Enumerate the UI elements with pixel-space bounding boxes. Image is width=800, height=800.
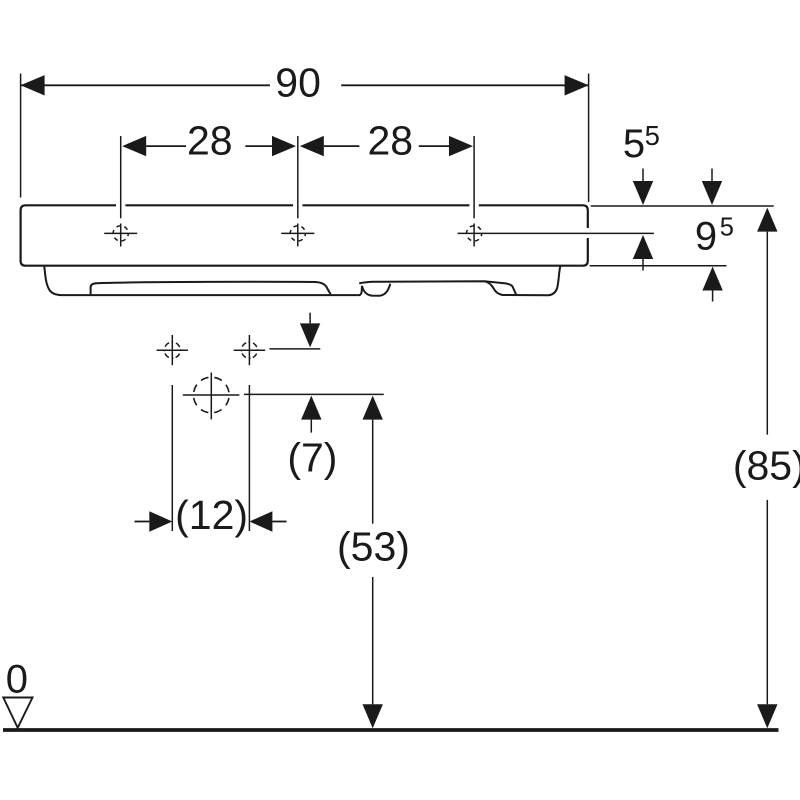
- dimension 90 right arrowhead: [565, 75, 589, 95]
- svg-text:28: 28: [367, 118, 413, 164]
- dimension 90 left arrowhead: [21, 75, 45, 95]
- drain dashed circle: [194, 377, 230, 413]
- dimension (53) lower stem: [372, 577, 374, 704]
- svg-text:90: 90: [275, 60, 321, 106]
- dimension 28 right tail line: [419, 145, 449, 147]
- drain circle vertical centerline: [210, 373, 212, 420]
- washbasin skirt outer left and bottom line: [44, 267, 362, 296]
- drain circle horizontal centerline: [183, 394, 240, 396]
- lower crosshair 1 dashed circle: [164, 342, 180, 358]
- dimension 90 line right segment: [341, 84, 588, 86]
- lower crosshair 1 horizontal line: [157, 349, 188, 351]
- lower crosshair 2 horizontal line: [234, 349, 265, 351]
- dimension (12) left tail line: [135, 521, 150, 523]
- dimension 5.5 up arrowhead: [633, 235, 653, 259]
- lower crosshair 2 vertical line: [248, 335, 250, 365]
- dimension (12) left extension line: [171, 385, 173, 531]
- washbasin skirt right pocket and outer right: [485, 266, 561, 295]
- level line top surface: [591, 205, 774, 207]
- tap hole crosshair 2 vertical line: [297, 224, 299, 247]
- dimension (85) lower stem: [766, 500, 768, 704]
- dimension 90 left extension line: [20, 74, 22, 198]
- svg-text:9: 9: [695, 215, 717, 259]
- dimension (53) down arrowhead: [363, 704, 383, 728]
- dimension (12) left arrowhead: [149, 511, 172, 531]
- datum line for (7) and (53): [244, 393, 384, 395]
- svg-text:5: 5: [720, 214, 734, 242]
- dimension 9.5 up arrowhead: [702, 267, 722, 291]
- tap hole crosshair 2 horizontal line: [281, 232, 314, 234]
- ground line: [3, 728, 779, 732]
- svg-text:0: 0: [6, 658, 28, 702]
- tap hole crosshair 2 dashed circle: [290, 226, 305, 241]
- dimension (85) down arrowhead: [757, 704, 777, 728]
- dimension 5.5 right down arrowhead: [702, 181, 722, 205]
- svg-text:(7): (7): [287, 434, 337, 480]
- svg-text:28: 28: [187, 118, 233, 164]
- svg-text:5: 5: [623, 122, 645, 166]
- drain marker down arrow stem: [309, 313, 311, 324]
- tap hole 3 extension line: [473, 136, 475, 218]
- svg-text:(85): (85): [733, 443, 800, 489]
- dimension 28 right arrowhead: [449, 136, 473, 156]
- dimension 28 left arrowhead: [122, 136, 146, 156]
- dimension 28 middle right-pointing arrowhead: [272, 136, 296, 156]
- dimension (85) top arrowhead: [757, 208, 777, 232]
- dimension (53) up arrowhead: [363, 396, 383, 420]
- dimension 5.5 left down arrow stem: [642, 169, 644, 182]
- dimension 90 line left segment: [21, 84, 270, 86]
- washbasin skirt left recess line: [91, 282, 331, 294]
- dimension 9.5 up arrow stem: [712, 291, 714, 302]
- svg-text:5: 5: [645, 120, 660, 151]
- dimension 28 left line to middle: [245, 145, 272, 147]
- lower crosshair 2 dashed circle: [241, 342, 257, 358]
- tap hole crosshair 1 horizontal line: [104, 232, 137, 234]
- dimension 28 right line from middle: [324, 145, 360, 147]
- dimension 5.5 left down arrowhead: [633, 181, 653, 205]
- tap hole crosshair 3 horizontal line: [458, 232, 491, 234]
- tap hole 2 extension line: [297, 136, 299, 218]
- dimension (12) right extension line: [248, 385, 250, 531]
- washbasin slab outline: [21, 205, 588, 265]
- dimension (12) right tail line: [272, 521, 286, 523]
- dimension (12) right arrowhead: [249, 511, 272, 531]
- washbasin skirt center leaf lower edge: [362, 284, 390, 296]
- svg-text:(53): (53): [337, 523, 410, 569]
- dimension 28 left tail line: [146, 145, 186, 147]
- tap hole crosshair 3 dashed circle: [467, 226, 482, 241]
- dimension 28 middle left-pointing arrowhead: [300, 136, 324, 156]
- datum triangle: [3, 698, 32, 728]
- dimension 5.5 up arrow stem: [642, 259, 644, 271]
- dimension (53) upper stem: [372, 420, 374, 524]
- tap hole crosshair 1 dashed circle: [113, 226, 128, 241]
- level line tap hole axis: [491, 232, 654, 234]
- dimension 5.5 right down arrow stem: [711, 169, 713, 182]
- tap hole crosshair 1 vertical line: [120, 224, 122, 247]
- lower crosshair 1 vertical line: [171, 335, 173, 365]
- svg-text:(12): (12): [175, 492, 248, 538]
- dimension 90 right extension line: [588, 74, 590, 203]
- tap hole crosshair 3 vertical line: [473, 224, 475, 247]
- dimension (7) stem: [310, 420, 312, 433]
- washbasin skirt bridge shelf line with right flap: [359, 281, 516, 294]
- dimension (85) upper stem: [766, 232, 768, 435]
- dimension (7) up arrowhead: [301, 396, 321, 420]
- tap hole 1 extension line: [120, 136, 122, 218]
- drain marker reference line: [270, 348, 321, 350]
- drain marker down arrowhead: [300, 323, 320, 347]
- level line slab bottom: [590, 265, 727, 267]
